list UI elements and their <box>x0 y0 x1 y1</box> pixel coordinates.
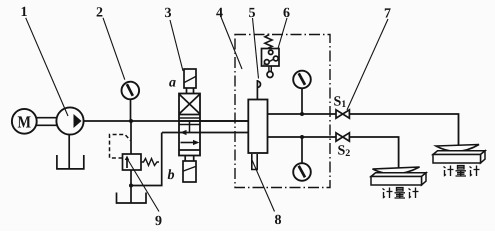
svg-text:9: 9 <box>155 214 162 229</box>
svg-text:2: 2 <box>96 6 103 21</box>
wire S1 to right meter <box>349 114 458 147</box>
solenoid a <box>184 69 196 94</box>
test component block <box>248 100 267 154</box>
valve arrow right passage <box>181 142 197 144</box>
pilot dashed line <box>110 135 131 159</box>
wire valve to test block A <box>200 120 248 122</box>
gauge upper <box>293 71 311 89</box>
coupling shaft <box>37 118 57 126</box>
callout 1 <box>21 5 69 116</box>
relief spring <box>141 159 159 166</box>
callout 6 <box>278 6 290 49</box>
drain stem 8 <box>252 154 257 170</box>
node junction lower <box>300 135 304 139</box>
svg-text:8: 8 <box>275 213 282 228</box>
meter right dish <box>436 145 479 152</box>
node junction at gauge branch <box>129 119 133 123</box>
svg-text:5: 5 <box>249 6 256 21</box>
relief valve 9 <box>123 154 142 170</box>
meter right slab <box>433 151 485 163</box>
valve position X cross <box>180 95 200 114</box>
switch plunger <box>267 66 273 78</box>
callout 9 <box>128 160 162 229</box>
test enclosure 4 dash-dot box <box>235 35 330 188</box>
motor M <box>12 109 37 134</box>
valve mid passages <box>179 118 200 133</box>
tank under relief valve <box>117 193 147 204</box>
svg-text:b: b <box>168 168 175 183</box>
svg-text:M: M <box>18 112 32 131</box>
main pressure line P <box>84 120 249 122</box>
svg-text:a: a <box>169 76 176 91</box>
valve S2 <box>336 133 349 141</box>
gauge stem wire <box>130 99 132 121</box>
return line wire <box>131 133 162 186</box>
pump 1 <box>56 107 83 134</box>
wire valve to test block B <box>200 132 248 134</box>
tank under pump <box>57 155 84 169</box>
callout 2 <box>96 6 125 80</box>
callout 5 <box>249 6 259 79</box>
callout 8 <box>252 160 282 228</box>
valve arrow left <box>180 130 187 135</box>
svg-text:3: 3 <box>165 6 172 21</box>
branch wire to relief valve <box>130 121 132 154</box>
meter left dish <box>373 167 420 174</box>
callout 7 <box>347 7 391 111</box>
wire upper out <box>268 113 337 115</box>
wire S2 to left meter <box>349 137 398 169</box>
gauge lower <box>293 163 311 181</box>
svg-text:1: 1 <box>21 5 28 20</box>
suction line <box>68 135 70 169</box>
callout 4 <box>216 6 242 69</box>
solenoid b <box>183 156 196 183</box>
callout 3 <box>165 6 184 71</box>
node junction return <box>129 184 133 188</box>
pressure switch 6 <box>262 49 280 67</box>
directional valve 3 body <box>179 94 200 156</box>
gauge upper stem <box>301 88 303 114</box>
pressure switch 6 spring <box>265 34 272 50</box>
pressure gauge 2 <box>122 82 140 100</box>
valve S1 <box>336 110 349 118</box>
relief outlet wire <box>130 170 132 203</box>
label meter right 计量计 <box>444 166 480 177</box>
node junction upper <box>300 112 304 116</box>
tank return line T <box>162 132 179 134</box>
wire lower out <box>268 136 337 138</box>
label meter left 计量计 <box>383 188 419 199</box>
gauge lower stem <box>301 137 303 163</box>
test point 5 tap <box>257 80 260 100</box>
meter left slab <box>371 173 426 185</box>
